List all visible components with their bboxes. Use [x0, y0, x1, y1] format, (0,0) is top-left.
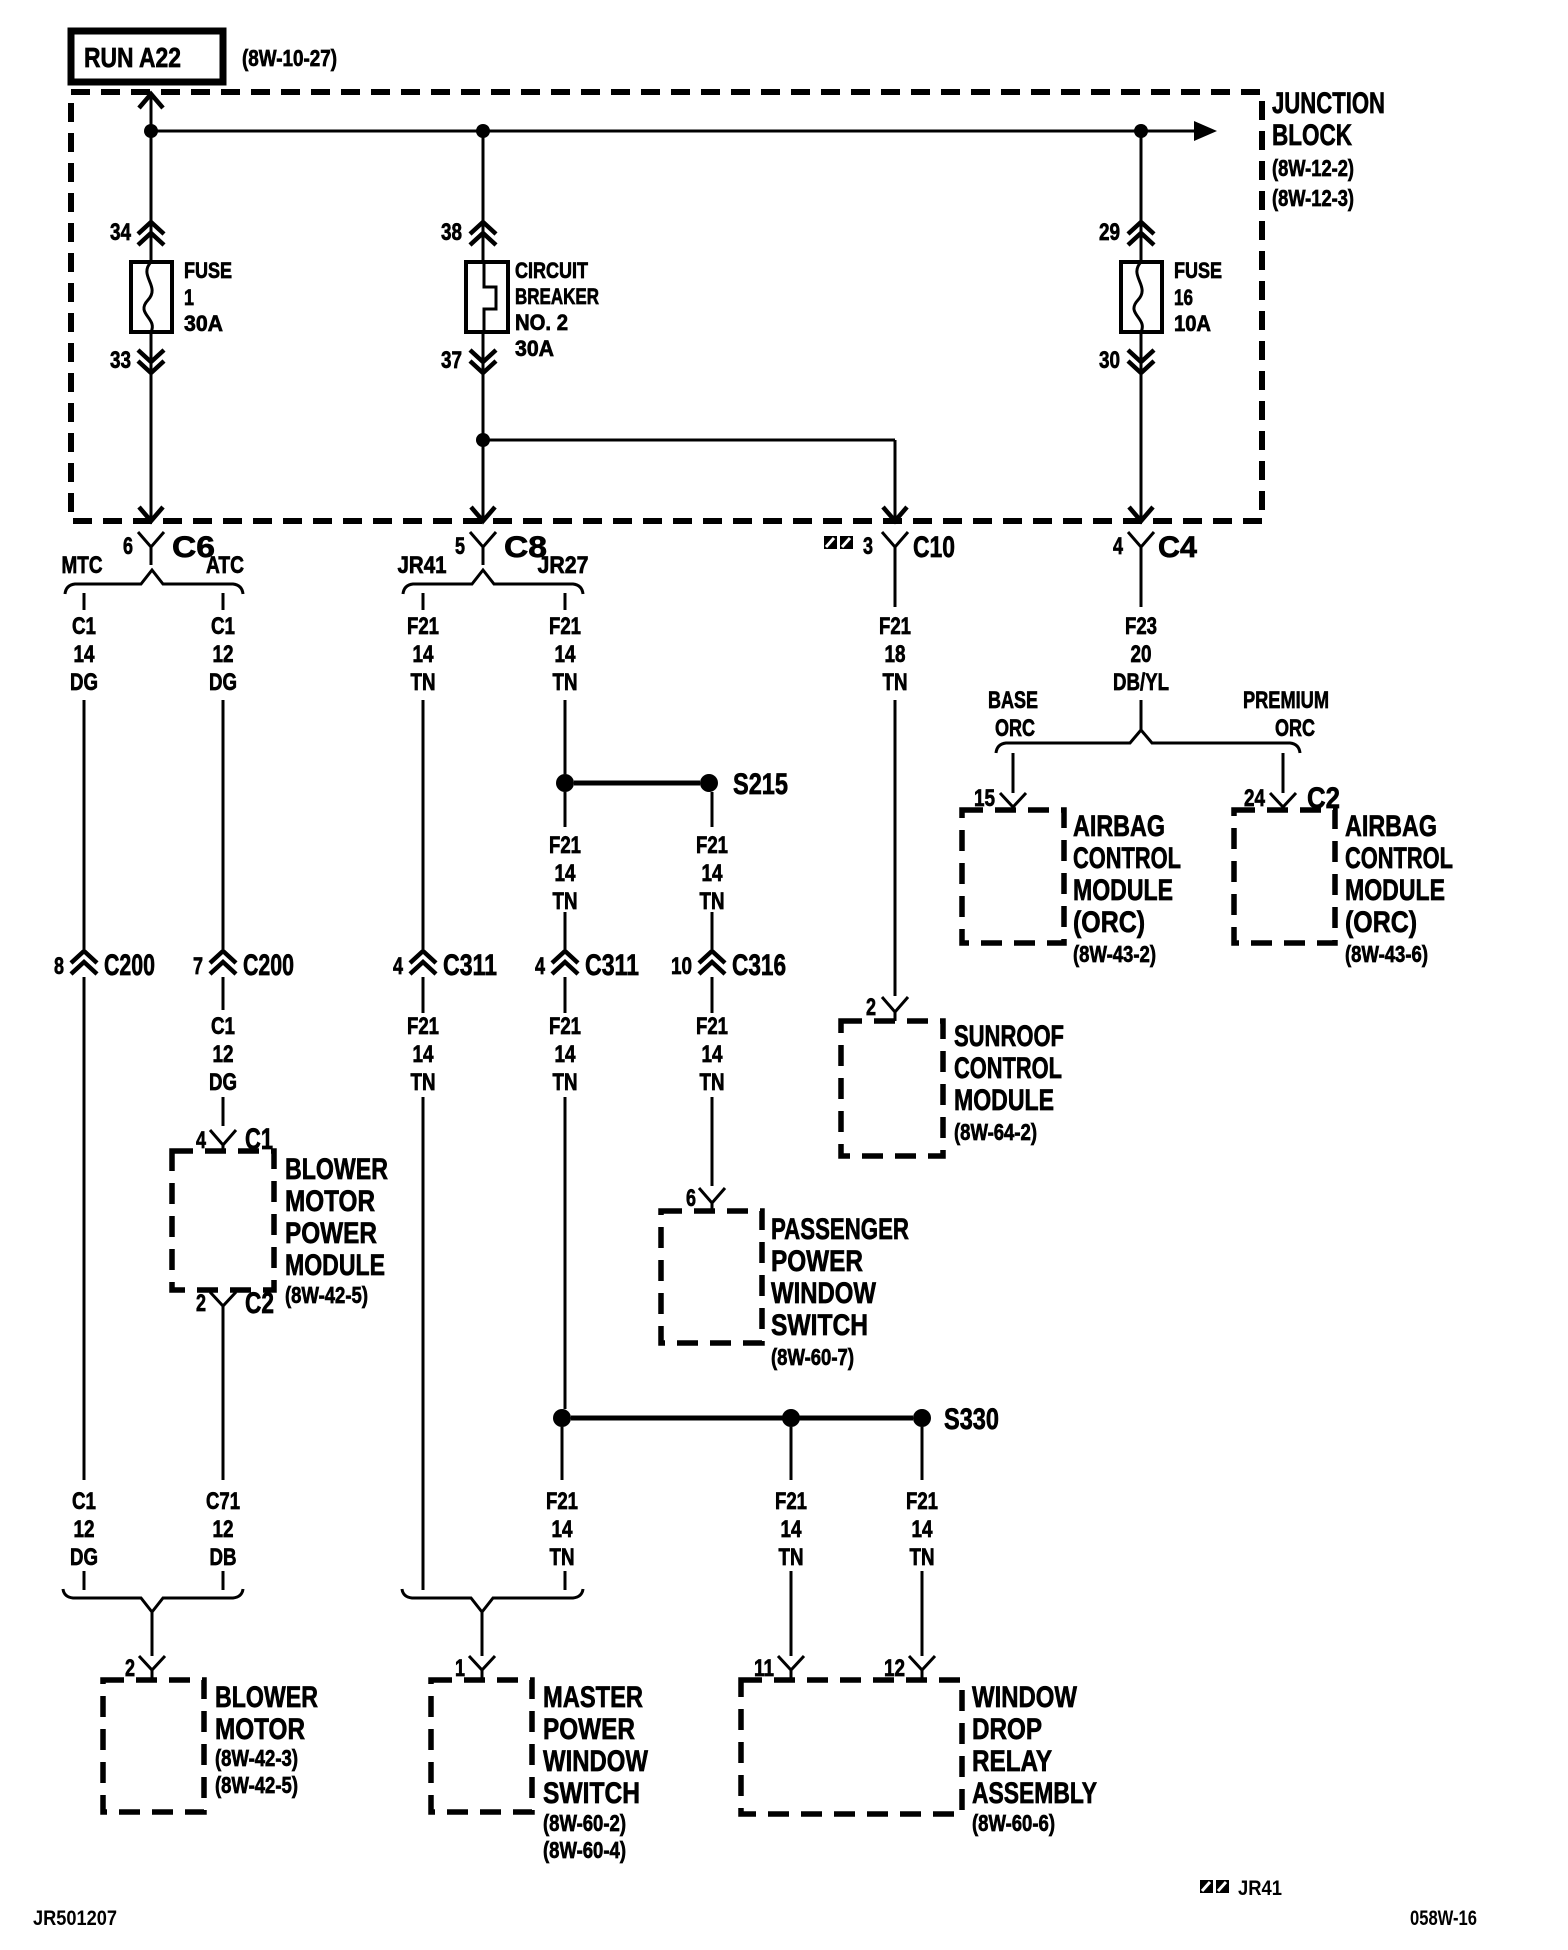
- svg-text:F21: F21: [407, 613, 439, 640]
- svg-text:MODULE: MODULE: [285, 1249, 385, 1282]
- wire: fuse 16 column: [1140, 131, 1143, 521]
- wire C316 to passenger switch: [711, 1097, 714, 1186]
- pin 34: [110, 219, 164, 246]
- wire JR27 below C311: [564, 977, 567, 1013]
- svg-text:33: 33: [110, 347, 131, 374]
- svg-text:2: 2: [125, 1655, 135, 1682]
- arrow out to C6: [139, 507, 163, 521]
- wire C316 below: [711, 977, 714, 1013]
- pin 37: [441, 347, 496, 374]
- blower motor box: [103, 1680, 204, 1812]
- svg-text:F21: F21: [906, 1488, 938, 1515]
- wire: branch to C10: [483, 440, 895, 521]
- svg-text:S215: S215: [733, 768, 788, 801]
- svg-text:SUNROOF: SUNROOF: [954, 1020, 1064, 1053]
- svg-text:6: 6: [686, 1185, 696, 1212]
- svg-text:DG: DG: [209, 669, 237, 696]
- wire blower motor fork: [151, 1612, 154, 1656]
- connector pin 2 (blower motor): [125, 1655, 165, 1682]
- fuse 1 30A: [131, 258, 232, 336]
- footnote JR41 flags: [1200, 1877, 1282, 1900]
- svg-text:SWITCH: SWITCH: [771, 1309, 868, 1342]
- sunroof control module box: [841, 1021, 943, 1156]
- svg-text:C1: C1: [211, 613, 235, 640]
- svg-text:12: 12: [213, 1041, 234, 1068]
- junction node at circuit breaker: [476, 124, 490, 138]
- wire JR27 to S330: [564, 1097, 567, 1409]
- svg-text:JR27: JR27: [538, 552, 589, 579]
- svg-text:F21: F21: [549, 613, 581, 640]
- wire JR41 below C311: [422, 977, 425, 1013]
- svg-text:C71: C71: [206, 1488, 240, 1515]
- svg-text:MODULE: MODULE: [954, 1084, 1054, 1117]
- svg-text:BLOWER: BLOWER: [285, 1153, 388, 1186]
- svg-text:1: 1: [455, 1655, 465, 1682]
- svg-text:BASE: BASE: [988, 687, 1038, 714]
- tick JR27: [564, 593, 567, 610]
- wire label F21 18 TN (C10): [879, 613, 911, 696]
- svg-text:14: 14: [702, 1041, 724, 1068]
- svg-text:C4: C4: [1158, 531, 1197, 564]
- svg-text:(8W-10-27): (8W-10-27): [242, 45, 337, 71]
- pin 30: [1099, 347, 1154, 374]
- svg-text:F21: F21: [546, 1488, 578, 1515]
- svg-text:MODULE: MODULE: [1345, 874, 1445, 907]
- connector pin 1 (master switch): [455, 1655, 495, 1682]
- svg-text:4: 4: [196, 1127, 206, 1154]
- svg-text:MOTOR: MOTOR: [215, 1713, 305, 1746]
- svg-text:7: 7: [193, 953, 203, 980]
- svg-text:12: 12: [74, 1516, 95, 1543]
- wire label F21 14 TN (JR41 lower): [407, 1013, 439, 1096]
- svg-text:(8W-42-5): (8W-42-5): [215, 1772, 298, 1798]
- svg-text:2: 2: [196, 1290, 206, 1317]
- svg-text:JR501207: JR501207: [33, 1907, 117, 1930]
- svg-text:18: 18: [885, 641, 906, 668]
- svg-text:MOTOR: MOTOR: [285, 1185, 375, 1218]
- svg-text:12: 12: [213, 1516, 234, 1543]
- master power window switch box: [431, 1680, 532, 1812]
- svg-text:DB/YL: DB/YL: [1113, 669, 1169, 696]
- wire MTC upper: [83, 700, 86, 949]
- RUN A22 feed box: [71, 31, 223, 82]
- wire label F21 14 TN (S330 right): [906, 1488, 938, 1571]
- svg-text:14: 14: [702, 860, 724, 887]
- svg-text:CONTROL: CONTROL: [1345, 842, 1453, 875]
- wire label F21 14 TN (S330 left): [546, 1488, 578, 1571]
- svg-text:CONTROL: CONTROL: [954, 1052, 1062, 1085]
- svg-text:WINDOW: WINDOW: [543, 1745, 649, 1778]
- svg-text:CONTROL: CONTROL: [1073, 842, 1181, 875]
- svg-text:DG: DG: [70, 669, 98, 696]
- svg-text:14: 14: [555, 1041, 577, 1068]
- window drop relay assembly box: [741, 1680, 962, 1814]
- svg-text:14: 14: [781, 1516, 803, 1543]
- wire label F21 14 TN (S330 mid): [775, 1488, 807, 1571]
- blower motor power module name: [285, 1153, 388, 1308]
- window drop relay assembly name: [972, 1681, 1097, 1836]
- svg-text:29: 29: [1099, 219, 1120, 246]
- svg-text:NO. 2: NO. 2: [515, 310, 568, 335]
- svg-text:C316: C316: [732, 949, 786, 982]
- svg-text:TN: TN: [411, 1069, 436, 1096]
- wire C4 stub: [1140, 700, 1143, 731]
- branch label PREMIUM ORC: [1243, 687, 1329, 742]
- svg-text:C2: C2: [245, 1287, 274, 1320]
- blower motor name: [215, 1681, 318, 1798]
- brace split C8 to JR41/JR27: [403, 570, 583, 594]
- airbag control module (base) name: [1073, 810, 1181, 967]
- svg-text:14: 14: [555, 860, 577, 887]
- svg-text:C200: C200: [243, 949, 294, 982]
- svg-text:DROP: DROP: [972, 1713, 1042, 1746]
- svg-text:(8W-60-2): (8W-60-2): [543, 1810, 626, 1836]
- connector C8 pin 5: [455, 531, 547, 565]
- svg-text:30: 30: [1099, 347, 1120, 374]
- svg-text:ASSEMBLY: ASSEMBLY: [972, 1777, 1097, 1810]
- svg-text:(8W-12-2): (8W-12-2): [1272, 155, 1354, 181]
- svg-text:(ORC): (ORC): [1073, 906, 1145, 939]
- brace split C6 to MTC/ATC: [65, 570, 243, 594]
- svg-text:(8W-60-6): (8W-60-6): [972, 1810, 1055, 1836]
- wire below S330 mid: [790, 1427, 793, 1480]
- svg-text:C10: C10: [913, 531, 955, 564]
- splice S215: [556, 768, 788, 801]
- svg-text:16: 16: [1174, 285, 1193, 310]
- svg-text:14: 14: [552, 1516, 574, 1543]
- svg-text:JR41: JR41: [398, 552, 447, 579]
- svg-text:C1: C1: [72, 1488, 96, 1515]
- svg-text:DG: DG: [209, 1069, 237, 1096]
- wire window relay pin 12: [921, 1571, 924, 1656]
- circuit breaker no. 2: [466, 258, 599, 361]
- junction block name: [1272, 87, 1385, 211]
- svg-text:34: 34: [110, 219, 132, 246]
- wire JR41 long: [422, 1097, 425, 1590]
- connector pin 15 (base ORC): [974, 785, 1026, 812]
- wire: RUN A22 feed into junction block (arrow up): [139, 94, 163, 521]
- svg-text:12: 12: [213, 641, 234, 668]
- svg-text:F21: F21: [696, 1013, 728, 1040]
- wire label F21 14 TN (JR41): [407, 613, 439, 696]
- arrow out to C8: [471, 507, 495, 521]
- brace merge master switch: [402, 1589, 583, 1612]
- pin 33: [110, 347, 164, 374]
- connector pin 11 (window relay): [754, 1655, 804, 1682]
- master power window switch name: [543, 1681, 649, 1863]
- svg-text:F21: F21: [696, 832, 728, 859]
- wire label C1 12 DG (ATC lower): [209, 1013, 237, 1096]
- fuse 16 10A: [1121, 258, 1222, 336]
- svg-text:2: 2: [866, 994, 876, 1021]
- svg-text:BLOWER: BLOWER: [215, 1681, 318, 1714]
- svg-text:C1: C1: [211, 1013, 235, 1040]
- svg-text:38: 38: [441, 219, 462, 246]
- wire C316 branch: [711, 912, 714, 949]
- wire window relay pin 11: [790, 1571, 793, 1656]
- brace split C4 to BASE/PREMIUM: [996, 730, 1300, 753]
- svg-text:TN: TN: [553, 1069, 578, 1096]
- wire label C71 12 DB (ATC bottom): [206, 1488, 240, 1571]
- sunroof control module name: [954, 1020, 1064, 1145]
- svg-text:TN: TN: [779, 1544, 804, 1571]
- junction node at fuse 1: [144, 124, 158, 138]
- svg-text:4: 4: [393, 953, 403, 980]
- svg-text:(8W-43-2): (8W-43-2): [1073, 941, 1156, 967]
- svg-text:F21: F21: [549, 832, 581, 859]
- passenger power window switch name: [771, 1213, 909, 1370]
- svg-text:MASTER: MASTER: [543, 1681, 643, 1714]
- svg-text:TN: TN: [553, 888, 578, 915]
- svg-text:C200: C200: [104, 949, 155, 982]
- wire below S215 left: [564, 792, 567, 827]
- svg-text:058W-16: 058W-16: [1410, 1907, 1477, 1930]
- svg-text:FUSE: FUSE: [184, 258, 232, 283]
- svg-text:F21: F21: [549, 1013, 581, 1040]
- svg-text:SWITCH: SWITCH: [543, 1777, 640, 1810]
- svg-text:WINDOW: WINDOW: [972, 1681, 1078, 1714]
- svg-text:ORC: ORC: [1275, 715, 1315, 742]
- svg-text:CIRCUIT: CIRCUIT: [515, 258, 588, 283]
- svg-text:F21: F21: [775, 1488, 807, 1515]
- svg-text:BREAKER: BREAKER: [515, 284, 599, 309]
- branch label BASE ORC: [988, 687, 1038, 742]
- connector C311 pin 4 (JR41): [393, 949, 497, 982]
- connector C200 pin 8: [54, 949, 155, 982]
- svg-text:C311: C311: [585, 949, 639, 982]
- svg-text:(8W-12-3): (8W-12-3): [1272, 185, 1354, 211]
- wire ATC upper: [222, 700, 225, 949]
- svg-text:(8W-42-3): (8W-42-3): [215, 1745, 298, 1771]
- junction node at fuse 16: [1134, 124, 1148, 138]
- svg-text:MTC: MTC: [62, 552, 103, 579]
- tick ATC: [222, 593, 225, 610]
- wire ATC below C200: [222, 977, 225, 1010]
- brace merge blower motor: [63, 1589, 243, 1612]
- wire BASE branch: [1012, 753, 1015, 793]
- wire master switch fork: [481, 1612, 484, 1656]
- svg-text:1: 1: [184, 285, 194, 310]
- airbag control module (premium) box: [1234, 810, 1335, 943]
- svg-text:RUN A22: RUN A22: [84, 42, 181, 73]
- svg-text:8: 8: [54, 953, 64, 980]
- svg-text:14: 14: [555, 641, 577, 668]
- wire ATC below blower module: [222, 1332, 225, 1480]
- tick above blower brace right: [222, 1571, 225, 1590]
- svg-text:(8W-64-2): (8W-64-2): [954, 1119, 1037, 1145]
- wire label F21 14 TN (C316 lower): [696, 1013, 728, 1096]
- svg-text:30A: 30A: [515, 336, 554, 361]
- wire MTC long: [83, 977, 86, 1480]
- wire ATC to blower module: [222, 1097, 225, 1126]
- svg-text:C311: C311: [443, 949, 497, 982]
- connector C4 pin 4: [1113, 531, 1197, 607]
- svg-text:14: 14: [413, 641, 435, 668]
- connector C2 pin 24 (premium ORC): [1244, 782, 1340, 815]
- svg-text:TN: TN: [553, 669, 578, 696]
- airbag control module (premium) name: [1345, 810, 1453, 967]
- wire JR41 upper: [422, 700, 425, 949]
- wire label C1 14 DG (MTC): [70, 613, 98, 696]
- svg-text:5: 5: [455, 533, 465, 560]
- svg-text:3: 3: [863, 533, 873, 560]
- svg-text:(ORC): (ORC): [1345, 906, 1417, 939]
- wire label F21 14 TN (JR27): [549, 613, 581, 696]
- svg-text:PREMIUM: PREMIUM: [1243, 687, 1329, 714]
- svg-text:14: 14: [912, 1516, 934, 1543]
- svg-text:37: 37: [441, 347, 462, 374]
- svg-text:POWER: POWER: [285, 1217, 377, 1250]
- svg-text:DG: DG: [70, 1544, 98, 1571]
- svg-text:TN: TN: [700, 888, 725, 915]
- svg-text:C1: C1: [72, 613, 96, 640]
- wire label C1 12 DG (ATC): [209, 613, 237, 696]
- arrow out to C10: [883, 507, 907, 521]
- connector C316 pin 10: [671, 949, 786, 982]
- wire JR27 to splice S215: [564, 700, 567, 774]
- svg-text:POWER: POWER: [543, 1713, 635, 1746]
- svg-text:14: 14: [74, 641, 96, 668]
- svg-text:FUSE: FUSE: [1174, 258, 1222, 283]
- svg-text:F23: F23: [1125, 613, 1157, 640]
- tick MTC: [83, 593, 86, 610]
- svg-text:TN: TN: [411, 669, 436, 696]
- svg-text:PASSENGER: PASSENGER: [771, 1213, 909, 1246]
- svg-text:JR41: JR41: [1238, 1877, 1282, 1900]
- arrow out to C4: [1129, 507, 1153, 521]
- wire below S330 right: [921, 1427, 924, 1480]
- wire label F21 14 TN (JR27 mid): [549, 832, 581, 915]
- junction node below circuit breaker: [476, 433, 490, 447]
- svg-text:4: 4: [1113, 533, 1123, 560]
- svg-text:ATC: ATC: [206, 552, 244, 579]
- svg-text:(8W-60-4): (8W-60-4): [543, 1837, 626, 1863]
- tick above blower brace left: [83, 1571, 86, 1590]
- wire C10 to sunroof: [894, 700, 897, 996]
- svg-text:MODULE: MODULE: [1073, 874, 1173, 907]
- wire label F21 14 TN (JR27 lower): [549, 1013, 581, 1096]
- wire label F23 20 DB/YL (C4): [1113, 613, 1169, 696]
- connector C10 pin 3: [824, 531, 955, 607]
- svg-text:S330: S330: [944, 1403, 999, 1436]
- tick above master brace right: [564, 1571, 567, 1590]
- svg-text:F21: F21: [879, 613, 911, 640]
- svg-text:TN: TN: [550, 1544, 575, 1571]
- svg-text:WINDOW: WINDOW: [771, 1277, 877, 1310]
- svg-text:RELAY: RELAY: [972, 1745, 1052, 1778]
- connector C6 pin 6: [123, 531, 215, 565]
- svg-text:14: 14: [413, 1041, 435, 1068]
- connector pin 12 (window relay): [884, 1655, 935, 1682]
- wire below S215 right: [711, 792, 714, 827]
- svg-text:AIRBAG: AIRBAG: [1073, 810, 1165, 843]
- pin 29: [1099, 219, 1154, 246]
- connector C1 pin 4 (blower module): [196, 1123, 273, 1156]
- connector pin 2 (sunroof): [866, 994, 908, 1021]
- passenger power window switch box: [661, 1211, 762, 1343]
- tick JR41: [422, 593, 425, 610]
- svg-text:POWER: POWER: [771, 1245, 863, 1278]
- connector pin 6 (passenger switch): [686, 1185, 725, 1212]
- bus wire across junction block with arrow: [151, 121, 1217, 141]
- svg-text:(8W-43-6): (8W-43-6): [1345, 941, 1428, 967]
- wire below S330 left: [561, 1427, 564, 1480]
- splice S330: [553, 1403, 999, 1436]
- svg-text:30A: 30A: [184, 311, 223, 336]
- wire label F21 14 TN (C316 branch): [696, 832, 728, 915]
- svg-text:20: 20: [1131, 641, 1152, 668]
- svg-text:(8W-60-7): (8W-60-7): [771, 1344, 854, 1370]
- svg-text:TN: TN: [910, 1544, 935, 1571]
- wire PREMIUM branch: [1282, 753, 1285, 793]
- wire label C1 12 DG (MTC bottom): [70, 1488, 98, 1571]
- blower motor power module box: [172, 1151, 274, 1290]
- connector C200 pin 7: [193, 949, 294, 982]
- svg-text:DB: DB: [210, 1544, 237, 1571]
- wire JR27 to C311: [564, 912, 567, 949]
- svg-text:(8W-42-5): (8W-42-5): [285, 1282, 368, 1308]
- svg-text:4: 4: [535, 953, 545, 980]
- pin 38: [441, 219, 496, 246]
- airbag control module (base) box: [962, 810, 1064, 943]
- svg-text:AIRBAG: AIRBAG: [1345, 810, 1437, 843]
- svg-text:BLOCK: BLOCK: [1272, 119, 1352, 152]
- svg-text:F21: F21: [407, 1013, 439, 1040]
- svg-text:TN: TN: [700, 1069, 725, 1096]
- svg-text:10: 10: [671, 953, 692, 980]
- svg-text:10A: 10A: [1174, 311, 1211, 336]
- svg-text:TN: TN: [883, 669, 908, 696]
- connector C311 pin 4 (JR27): [535, 949, 639, 982]
- svg-text:JUNCTION: JUNCTION: [1272, 87, 1385, 120]
- wire: circuit breaker column: [482, 131, 485, 521]
- svg-text:6: 6: [123, 533, 133, 560]
- svg-text:ORC: ORC: [995, 715, 1035, 742]
- connector C2 pin 2 (blower module): [196, 1287, 274, 1332]
- junction block dashed border: [71, 92, 1262, 521]
